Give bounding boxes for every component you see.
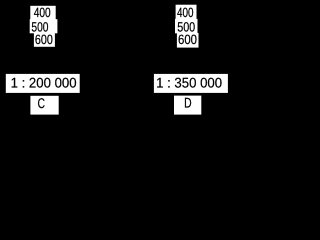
letter box D [173,95,202,116]
svg-text:D: D [184,95,192,111]
node label 600 (right column) [177,32,199,47]
svg-text:400: 400 [34,5,51,20]
letter box C [30,95,60,115]
wire left edge axis line [0,0,2,66]
scale box D: 1 : 350 000 [153,73,228,93]
node label 500 (right column) [175,19,198,35]
svg-text:600: 600 [35,32,53,47]
node label 400 (right column) [176,5,197,20]
svg-text:C: C [38,95,46,111]
wire right edge axis line [232,0,234,87]
svg-text:400: 400 [177,5,194,20]
node label 400 (left column) [30,5,55,20]
svg-text:600: 600 [178,32,197,47]
svg-text:1 : 350 000: 1 : 350 000 [156,75,222,91]
scale box C: 1 : 200 000 [5,73,80,93]
node label 600 (left column) [34,32,55,47]
node label 500 (left column) [30,19,58,34]
svg-text:1 : 200 000: 1 : 200 000 [11,75,77,91]
